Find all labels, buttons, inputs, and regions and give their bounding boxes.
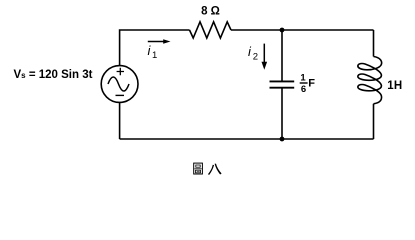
resistor R 8ohm zigzag xyxy=(190,22,232,38)
wire top-left: source top to resistor xyxy=(120,30,190,66)
caption figure-eight char TU (drawn) xyxy=(194,163,203,174)
inductor L 1H coil xyxy=(358,57,382,104)
svg-text:1: 1 xyxy=(300,72,306,83)
wire source bottom xyxy=(119,102,121,139)
source sine wave xyxy=(108,77,129,91)
arrow i2 xyxy=(263,44,265,63)
svg-text:Vs = 120 Sin 3t: Vs = 120 Sin 3t xyxy=(14,69,93,81)
wire bottom xyxy=(120,138,374,140)
source minus sign xyxy=(116,94,125,96)
svg-text:i: i xyxy=(248,44,252,59)
svg-text:i: i xyxy=(148,43,152,58)
caption figure-eight char BA (drawn) xyxy=(208,164,222,175)
svg-text:2: 2 xyxy=(253,52,258,63)
capacitor C 1/6F top plate xyxy=(270,80,295,82)
label 1/6 F fraction bar xyxy=(300,82,308,84)
wire right branch lower xyxy=(373,104,375,139)
wire right branch upper xyxy=(373,30,375,57)
source VS circle xyxy=(101,66,138,103)
wire middle branch lower xyxy=(281,89,283,140)
capacitor C 1/6F bottom plate xyxy=(270,87,295,89)
wire middle branch upper xyxy=(281,30,283,81)
svg-text:6: 6 xyxy=(301,84,306,95)
svg-text:8 Ω: 8 Ω xyxy=(201,6,220,18)
wire resistor to top-right corner xyxy=(231,29,374,31)
node B junction dot bottom xyxy=(280,137,285,142)
svg-text:F: F xyxy=(308,77,315,89)
svg-text:1: 1 xyxy=(152,50,157,61)
source plus sign xyxy=(117,68,124,75)
svg-text:H: H xyxy=(394,80,402,92)
node A junction dot top xyxy=(280,28,285,33)
arrow i1 xyxy=(148,41,164,43)
